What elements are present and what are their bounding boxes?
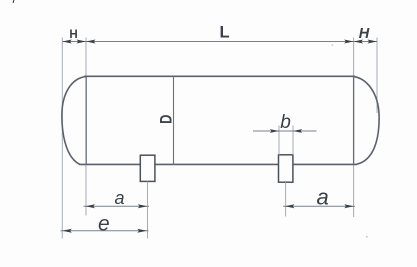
extension line right tangent (x=353.6): [353, 38, 355, 218]
tank right head: [353, 76, 379, 164]
leg 1 (left): [140, 155, 155, 181]
extension line left end (x=62): [61, 38, 63, 239]
arrow a-right right: [344, 204, 354, 208]
arrow a-right left: [285, 204, 295, 208]
arrow a-left left: [86, 204, 96, 208]
arrow a-left right: [138, 204, 148, 208]
arrow H-right outer: [368, 40, 378, 44]
b extension line left: [278, 126, 280, 155]
tank left head: [62, 76, 87, 164]
diameter line D: [173, 76, 175, 164]
arrow e right: [137, 229, 147, 233]
extension line left tangent (x=86): [85, 38, 87, 216]
svg-text:a: a: [114, 188, 124, 208]
arrow H-right inner: [354, 40, 364, 44]
a dimension line left: [84, 205, 150, 207]
svg-text:e: e: [98, 213, 110, 236]
svg-text:H: H: [359, 26, 370, 42]
arrow b right: [293, 129, 302, 133]
tank shell top edge: [84, 75, 355, 77]
svg-text:a: a: [316, 184, 328, 209]
b dimension line: [253, 130, 317, 132]
right head seam: [353, 76, 355, 164]
label D (rotated): [158, 114, 176, 124]
svg-text:L: L: [219, 23, 229, 41]
dimension line top (H L H): [62, 41, 377, 43]
svg-text:b: b: [280, 112, 291, 133]
left head seam: [85, 76, 87, 164]
tank shell bottom edge: [79, 163, 357, 165]
arrow L-left: [86, 40, 96, 44]
extension line right end (x=377): [376, 38, 378, 114]
arrow e left: [62, 229, 72, 233]
arrow L-right: [344, 40, 354, 44]
scan speck right: [366, 236, 368, 238]
leg2 centre extension line: [285, 182, 287, 216]
arrow H-left inner: [77, 40, 87, 44]
e dimension line: [61, 230, 149, 232]
scan speck mid-left: [332, 44, 334, 46]
scan speck top-left: [13, 0, 15, 3]
svg-text:H: H: [69, 29, 77, 41]
svg-text:D: D: [158, 114, 176, 124]
arrow H-left outer: [62, 40, 72, 44]
arrow b left: [270, 129, 279, 133]
leg 2 (right): [279, 155, 293, 182]
leg1 centre extension line: [147, 182, 149, 239]
b extension line right: [292, 126, 294, 155]
a dimension line right: [283, 205, 355, 207]
